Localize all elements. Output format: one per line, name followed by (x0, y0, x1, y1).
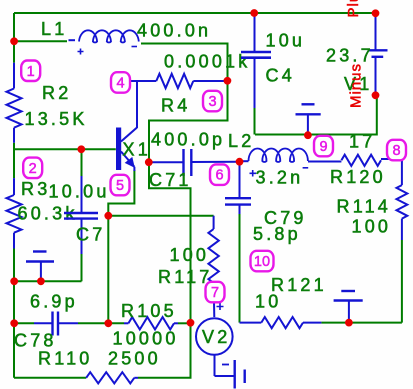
svg-text:Minus: Minus (348, 63, 365, 108)
label C7 (76, 225, 105, 245)
junction R4 right (224, 77, 232, 85)
value 13.5K (25, 109, 88, 129)
wire (108, 215, 213, 217)
node 1 (21, 61, 40, 82)
svg-text:R2: R2 (42, 83, 71, 103)
junction V1 top (372, 9, 380, 17)
svg-text:2: 2 (29, 161, 37, 177)
L1 minus pin mark (132, 46, 138, 48)
svg-text:100: 100 (170, 245, 210, 265)
ground bottom right (334, 291, 363, 323)
label R105 (121, 301, 177, 321)
svg-text:L2: L2 (228, 131, 254, 151)
node 6 (210, 164, 229, 185)
junction R117 row (104, 212, 112, 220)
wire (239, 214, 241, 323)
label L2 (228, 131, 254, 151)
wire (81, 254, 83, 281)
label R117 (158, 267, 213, 287)
svg-text:C4: C4 (266, 66, 295, 86)
L2 minus pin mark (303, 167, 309, 169)
L1 plus pin mark (78, 49, 84, 55)
svg-text:10: 10 (254, 254, 270, 270)
resistor R4 (131, 74, 227, 88)
label C71 (149, 170, 192, 190)
svg-text:100: 100 (352, 217, 392, 237)
junction C4 top (250, 9, 258, 17)
value 6.9p (30, 292, 78, 312)
svg-text:400.0n: 400.0n (137, 21, 211, 41)
value 10000 (113, 329, 179, 349)
node 8 (387, 140, 406, 161)
svg-text:5.8p: 5.8p (253, 224, 301, 244)
value 17 (349, 132, 375, 152)
wire (14, 12, 376, 14)
svg-text:0.0001k: 0.0001k (164, 52, 250, 72)
ground V2 (215, 360, 245, 389)
wire (321, 322, 402, 324)
wire (14, 40, 67, 42)
transistor X1 base bar (116, 128, 121, 171)
label V1 (344, 74, 372, 94)
svg-text:9: 9 (319, 139, 327, 155)
node 4 (111, 72, 130, 93)
svg-text:C78: C78 (14, 331, 57, 351)
label R2 (42, 83, 71, 103)
value 3.2n (256, 168, 304, 188)
ground left (26, 252, 54, 282)
junction C78 left (10, 319, 18, 327)
wire (401, 240, 403, 323)
label R120 (330, 167, 386, 187)
ground middle (296, 104, 321, 134)
label R110 (38, 349, 93, 369)
junction node6 (236, 158, 244, 166)
label V2 (202, 327, 230, 347)
svg-text:6: 6 (215, 168, 223, 184)
battery V1 (368, 13, 388, 95)
svg-text:2500: 2500 (108, 349, 161, 369)
svg-text:R3: R3 (21, 179, 50, 199)
value 2500 (108, 349, 161, 369)
svg-text:10000: 10000 (113, 329, 179, 349)
svg-text:10.0u: 10.0u (49, 182, 110, 202)
svg-text:C7: C7 (76, 225, 105, 245)
resistor R117 (208, 216, 218, 317)
svg-text:V2: V2 (202, 327, 230, 347)
V2 minus mark (222, 364, 229, 366)
inductor L1 (69, 30, 139, 42)
wire (13, 13, 15, 63)
junction top-left (10, 37, 18, 45)
wire (78, 322, 124, 324)
wire (14, 280, 82, 282)
svg-text:C71: C71 (149, 170, 192, 190)
value 100 of R114 (352, 217, 392, 237)
junction ground mid (304, 131, 312, 139)
svg-text:X1: X1 (123, 140, 151, 160)
svg-text:1: 1 (27, 64, 35, 80)
resistor R114 (397, 159, 408, 240)
value 23.7 (326, 46, 374, 66)
resistor R105 (124, 317, 178, 329)
node 9 (314, 136, 333, 157)
node 2 (23, 158, 42, 179)
svg-text:R117: R117 (158, 267, 213, 287)
label L1 (41, 19, 67, 39)
svg-text:3: 3 (208, 94, 216, 110)
V2 bottom lead (214, 355, 216, 376)
wire (107, 216, 109, 324)
transistor X1 collector (121, 81, 137, 142)
wire (255, 95, 377, 134)
node 5 (111, 175, 130, 196)
capacitor C71 (149, 149, 240, 176)
svg-text:400.0p: 400.0p (151, 130, 225, 150)
svg-text:7: 7 (211, 285, 219, 301)
value 100 of R117 (170, 245, 210, 265)
svg-text:Plus: Plus (345, 0, 362, 18)
svg-text:L1: L1 (41, 19, 67, 39)
capacitor C78 (34, 312, 78, 336)
label X1 (123, 140, 151, 160)
svg-text:23.7: 23.7 (326, 46, 374, 66)
value 0.0001k (164, 52, 250, 72)
node 3 (203, 91, 222, 112)
label C78 (14, 331, 57, 351)
label C79 (264, 208, 307, 228)
wire (14, 377, 86, 379)
junction R105 right (187, 319, 195, 327)
resistor R3 (7, 178, 22, 248)
value 400.0p (151, 130, 225, 150)
node 7 (206, 282, 225, 303)
wire (138, 44, 228, 378)
resistor R110 (86, 372, 138, 383)
V2 plus mark (217, 303, 224, 310)
wire (14, 322, 34, 324)
label R4 (161, 96, 190, 116)
resistor R120 (341, 155, 402, 166)
value 10u (266, 31, 306, 51)
junction emitter C71 (145, 158, 153, 166)
svg-text:R4: R4 (161, 96, 190, 116)
inductor L2 (240, 149, 342, 163)
label R114 (337, 197, 392, 217)
wire (254, 108, 256, 135)
label R3 (21, 179, 50, 199)
value 60.3k (18, 204, 78, 224)
wire (14, 148, 116, 150)
svg-text:10: 10 (255, 292, 281, 312)
wire (81, 149, 83, 176)
source V2 (196, 318, 233, 355)
junction V1 bottom (372, 91, 380, 99)
pin label Minus (348, 63, 365, 108)
svg-text:R105: R105 (121, 301, 177, 321)
junction base row (77, 145, 85, 153)
svg-text:6.9p: 6.9p (30, 292, 78, 312)
svg-text:3.2n: 3.2n (256, 168, 304, 188)
svg-text:R110: R110 (38, 349, 93, 369)
capacitor C4 (241, 13, 271, 108)
capacitor C79 (225, 162, 251, 214)
node 10 (251, 251, 274, 271)
svg-text:R120: R120 (330, 167, 386, 187)
junction ground row left (10, 277, 18, 285)
svg-text:10u: 10u (266, 31, 306, 51)
pin label Plus (345, 0, 362, 18)
transistor X1 emitter (121, 152, 135, 172)
resistor R2 (7, 63, 22, 143)
wire (13, 249, 15, 378)
label R121 (271, 275, 327, 295)
svg-text:13.5K: 13.5K (25, 109, 88, 129)
svg-text:8: 8 (392, 143, 400, 159)
svg-text:4: 4 (116, 76, 124, 92)
wire (178, 322, 191, 324)
svg-text:5: 5 (116, 178, 124, 194)
value 400.0n (137, 21, 211, 41)
wire (108, 170, 134, 216)
junction ground bottom right (345, 319, 353, 327)
junction C78 right (104, 319, 112, 327)
L2 plus pin mark (250, 170, 257, 177)
svg-text:17: 17 (349, 132, 375, 152)
capacitor C7 (64, 176, 98, 254)
value 10 of R121 (255, 292, 281, 312)
value 5.8p (253, 224, 301, 244)
value 10.0u (49, 182, 110, 202)
label C4 (266, 66, 295, 86)
wire (13, 143, 15, 178)
resistor R121 (240, 317, 322, 328)
junction ground row (37, 277, 45, 285)
svg-text:R114: R114 (337, 197, 392, 217)
